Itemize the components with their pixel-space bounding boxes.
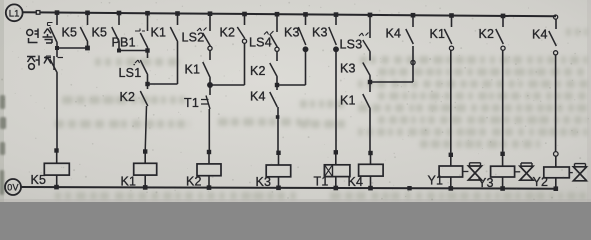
node top-bus junctions	[55, 10, 506, 18]
node Y3 bus	[500, 186, 505, 191]
contact K3 holding	[284, 14, 308, 85]
contact K3 rung6	[340, 52, 370, 76]
svg-text:PB1: PB1	[112, 36, 136, 50]
coil Y2 solenoid	[533, 156, 570, 189]
svg-text:LS2: LS2	[182, 31, 205, 45]
svg-text:T1: T1	[314, 175, 329, 189]
svg-text:LS1: LS1	[119, 66, 142, 80]
contact K4 rung9	[532, 15, 558, 55]
svg-text:K2: K2	[120, 90, 136, 104]
svg-text:LS4: LS4	[249, 36, 272, 50]
svg-text:Y1: Y1	[428, 174, 444, 188]
node rung4 holding	[275, 77, 306, 87]
wire rung4 down	[276, 107, 280, 153]
contact K1 rung7	[430, 16, 454, 51]
wire rung6 down	[369, 109, 371, 151]
limit switch LS2	[182, 14, 213, 51]
timer contact T1	[184, 85, 210, 110]
node K3 coil top	[276, 151, 280, 155]
svg-text:K5: K5	[92, 26, 108, 40]
valve Y2 symbol	[569, 164, 586, 181]
node K3 bus	[276, 186, 281, 191]
contact K1 holding	[151, 14, 178, 85]
svg-text:K1: K1	[430, 27, 446, 41]
svg-text:K4: K4	[386, 27, 402, 41]
contact K2 reset rung2	[120, 84, 148, 106]
node rung6 holding	[368, 76, 413, 84]
svg-text:LS3: LS3	[340, 38, 363, 52]
svg-text:K1: K1	[185, 63, 201, 77]
node K5 bus	[54, 185, 59, 190]
node K4 coil top	[368, 151, 372, 155]
svg-text:K4: K4	[250, 90, 266, 104]
pushbutton PB1	[112, 13, 148, 50]
page bleed-through text	[0, 28, 588, 200]
svg-text:Y3: Y3	[478, 176, 494, 190]
svg-text:Y2: Y2	[533, 175, 549, 189]
node rung2 holding	[145, 75, 177, 86]
svg-text:K1: K1	[151, 26, 167, 40]
node K1 coil top	[143, 149, 147, 153]
wire rung2 down	[145, 106, 146, 152]
wire node rung2 parallel	[117, 48, 150, 52]
terminal 0V	[5, 179, 21, 195]
node Y1 coil top	[449, 153, 453, 157]
node Y3 coil top	[500, 152, 504, 156]
node rung3 holding	[208, 78, 245, 87]
contact K5 start-parallel	[92, 13, 120, 51]
svg-text:K4: K4	[348, 175, 364, 189]
limit switch LS4	[249, 14, 279, 51]
node Y1 bus	[449, 186, 454, 191]
valve Y1 symbol	[463, 163, 482, 180]
node K1 bus	[143, 185, 148, 190]
svg-text:K1: K1	[121, 174, 137, 188]
coil K4	[348, 153, 384, 189]
svg-text:K2: K2	[479, 27, 495, 41]
svg-text:K2: K2	[186, 175, 202, 189]
coil T1 timer	[314, 152, 350, 188]
pushbutton 정지 (stop) NC	[27, 48, 63, 73]
svg-text:K3: K3	[284, 26, 300, 40]
node K2 bus	[207, 185, 212, 190]
svg-text:K2: K2	[220, 26, 236, 40]
node Y2 coil top	[554, 152, 559, 157]
node K2 coil top	[207, 150, 211, 154]
svg-text:K2: K2	[250, 64, 266, 78]
wire rung3 down	[208, 109, 210, 152]
terminal L1	[6, 4, 23, 21]
contact K2 rung4	[250, 51, 277, 78]
limit switch LS3	[340, 15, 371, 52]
svg-text:K3: K3	[340, 62, 356, 76]
valve Y3 symbol	[515, 163, 534, 180]
svg-text:T1: T1	[184, 96, 199, 110]
contact K2 holding	[220, 14, 247, 85]
svg-text:K1: K1	[340, 94, 356, 108]
wire rung1 down	[56, 73, 58, 151]
node top-bus marker	[36, 11, 40, 15]
contact K4 holding	[386, 15, 416, 82]
node bus blob	[407, 186, 411, 190]
node T1 bus	[334, 186, 339, 191]
coil K5	[31, 151, 70, 188]
svg-text:K4: K4	[532, 28, 548, 42]
svg-text:L1: L1	[9, 8, 20, 19]
contact K5 holding	[62, 13, 88, 48]
coil Y1 solenoid	[428, 155, 463, 189]
wire rung5 down	[334, 52, 338, 155]
wire rung7 down	[450, 50, 452, 153]
wire rung9 down	[555, 55, 557, 152]
svg-text:K5: K5	[62, 26, 78, 40]
contact K1 rung3	[185, 50, 211, 78]
coil Y3 solenoid	[478, 154, 515, 190]
coil K2	[186, 152, 221, 189]
svg-text:K5: K5	[31, 173, 47, 187]
svg-text:K3: K3	[256, 175, 272, 189]
contact K2 rung8	[479, 16, 506, 50]
coil K1	[121, 152, 157, 189]
svg-text:K3: K3	[312, 26, 328, 40]
node rung1 parallel	[55, 43, 90, 50]
node Y2 bus	[554, 186, 559, 191]
wire bottom bus 0V	[21, 187, 557, 189]
contact K1 rung6	[340, 82, 370, 109]
contact K3 rung5	[312, 15, 338, 52]
wire top bus L1	[23, 12, 556, 16]
svg-text:0V: 0V	[7, 182, 18, 192]
limit switch LS1	[119, 51, 148, 81]
node K5 coil top	[54, 148, 58, 152]
wire rung8 down	[502, 50, 504, 151]
coil K3	[256, 153, 291, 189]
contact K4 reset rung4	[250, 85, 277, 107]
pushbutton 연속 (start)	[27, 13, 58, 43]
node K4 bus	[368, 186, 373, 191]
